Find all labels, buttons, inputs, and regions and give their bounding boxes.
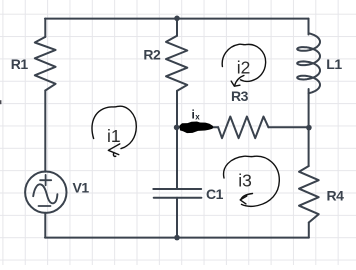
svg-text:R3: R3 (231, 88, 249, 104)
mesh loop i2 (222, 44, 265, 86)
resistor R2 (166, 36, 187, 91)
wire right branch lower (308, 223, 310, 238)
wire right branch upper (308, 19, 310, 35)
svg-text:R4: R4 (327, 187, 345, 203)
node junction middle left (174, 125, 180, 131)
node junction middle right (306, 125, 312, 131)
wire middle branch lower (176, 198, 178, 238)
node junction bottom middle (174, 235, 180, 241)
svg-text:i1: i1 (107, 126, 121, 146)
resistor R4 (299, 166, 319, 223)
resistor R1 (35, 37, 56, 91)
mesh loop i3 (224, 156, 280, 206)
svg-text:i2: i2 (237, 58, 251, 78)
source V1 (25, 172, 66, 213)
svg-text:L1: L1 (326, 56, 342, 72)
wire middle branch middle (176, 91, 178, 189)
resistor R3 (218, 117, 268, 139)
wire middle branch upper (176, 19, 178, 36)
svg-text:x: x (195, 112, 200, 121)
svg-text:i3: i3 (238, 171, 252, 191)
wire right branch middle (308, 89, 310, 166)
capacitor C1 (153, 189, 201, 198)
wire top rail (45, 18, 309, 20)
wire mid horizontal branch left (under arrow) (177, 126, 218, 128)
svg-text:V1: V1 (73, 179, 90, 195)
node junction top middle (174, 15, 180, 21)
current arrow ix (thick black) (179, 122, 213, 134)
mesh loop i1 (92, 106, 136, 156)
inductor L1 (297, 33, 320, 93)
svg-text:R1: R1 (11, 56, 29, 72)
svg-text:R2: R2 (143, 47, 161, 63)
svg-text:C1: C1 (206, 186, 224, 202)
wire left branch middle (44, 91, 46, 172)
wire left branch upper (44, 19, 46, 37)
wire mid horizontal branch right (268, 126, 308, 128)
wire left branch lower (44, 213, 46, 238)
wire bottom rail (45, 237, 309, 239)
stray mark left edge (0, 100, 1, 104)
